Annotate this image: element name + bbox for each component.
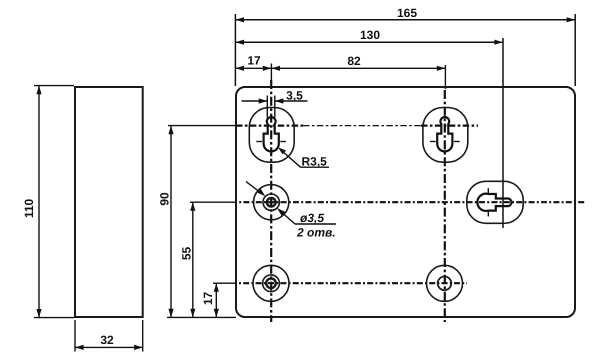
dimension 130 <box>235 38 503 228</box>
centerline col2 <box>444 90 446 322</box>
svg-text:110: 110 <box>22 198 36 218</box>
dimension 3,5 slot width <box>242 96 308 118</box>
svg-text:2 отв.: 2 отв. <box>296 225 336 239</box>
side view body <box>75 87 143 317</box>
keyhole slot B key cutout <box>437 117 452 151</box>
keyhole slot C outer obround <box>467 181 523 223</box>
hole D counterbore circles <box>254 185 289 220</box>
keyhole slot A key cutout <box>264 117 279 151</box>
dimension 82 <box>271 65 445 89</box>
keyhole slot C key cutout <box>477 194 511 211</box>
svg-text:90: 90 <box>158 192 172 206</box>
svg-text:R3,5: R3,5 <box>302 154 328 168</box>
dimension 165 <box>235 14 575 86</box>
svg-text:55: 55 <box>179 247 193 261</box>
keyhole slot C center ticks <box>487 188 489 216</box>
dimension 55 <box>190 202 236 317</box>
svg-text:165: 165 <box>397 6 417 20</box>
leader R3,5 <box>281 150 301 167</box>
leader diameter 3,5 2 holes <box>246 182 263 195</box>
svg-text:82: 82 <box>347 54 361 68</box>
keyhole slot A center ticks <box>256 141 286 143</box>
svg-text:17: 17 <box>247 54 261 68</box>
keyhole slot B outer obround <box>423 108 468 163</box>
svg-text:32: 32 <box>100 333 114 347</box>
centerline row1 <box>236 124 303 126</box>
dimension 90 <box>167 126 236 318</box>
svg-text:3,5: 3,5 <box>286 88 303 102</box>
dimension 17 top <box>235 64 271 85</box>
keyhole slot B center ticks <box>430 141 460 143</box>
centerline row3 <box>236 282 467 284</box>
plate outline <box>236 87 575 317</box>
centerline col1 <box>270 80 272 322</box>
hole E counterbore circles <box>253 265 289 301</box>
centerline row2 <box>236 201 585 203</box>
hole F circles <box>427 265 463 301</box>
keyhole slot A outer obround <box>249 108 294 163</box>
dimension 32 <box>75 320 143 352</box>
svg-text:ø3,5: ø3,5 <box>300 211 324 225</box>
svg-text:130: 130 <box>360 28 380 42</box>
dimension 110 <box>34 86 74 318</box>
svg-text:17: 17 <box>201 292 215 306</box>
dimension 17 left <box>213 283 236 317</box>
